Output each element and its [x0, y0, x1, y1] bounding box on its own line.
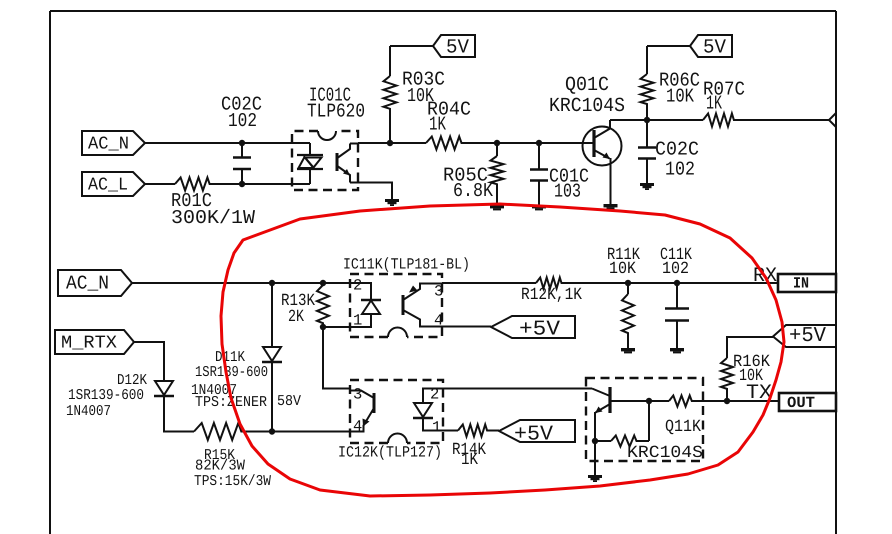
svg-text:1K: 1K [429, 114, 446, 136]
wire R13K to IC11K pin1 [323, 326, 350, 328]
svg-text:1: 1 [432, 419, 441, 437]
diode LED inside IC11K [350, 283, 381, 327]
svg-text:OUT: OUT [787, 394, 815, 412]
transistor phototransistor inside IC12K [350, 391, 374, 432]
resistor R15K 82K/3W TPS:15K/3W [194, 423, 271, 490]
svg-text:1N4007: 1N4007 [66, 403, 111, 420]
svg-text:AC_N: AC_N [88, 135, 129, 155]
svg-text:Q11K: Q11K [665, 418, 702, 437]
svg-text:TPS:15K/3W: TPS:15K/3W [194, 473, 271, 490]
wire R13K junction down to IC12K pin3 [323, 327, 350, 389]
op-amp U IC12K TLP127 optocoupler dashed box [338, 380, 443, 462]
svg-text:1K: 1K [706, 93, 722, 115]
svg-text:2K: 2K [288, 308, 305, 327]
capacitor C11K 102 [660, 246, 693, 348]
op-amp U IC01C TLP620 optocoupler dashed box [292, 85, 365, 191]
resistor R03C 10K [384, 46, 446, 143]
wire red freehand annotation loop [221, 204, 784, 496]
transistor inside Q11K [592, 387, 610, 441]
wire AC_N to IC11K pin2 [132, 282, 350, 284]
wire R06C junction to R07C [647, 119, 703, 121]
wire R15K to IC12K pin4 [246, 431, 350, 433]
wire AC_N to optocoupler [145, 142, 292, 144]
wire base resistor to TX node [694, 400, 779, 402]
svg-text:5V: 5V [446, 37, 469, 60]
op-amp U IC11K TLP181-BL optocoupler dashed box [343, 256, 470, 338]
node 5V power tag (right) [690, 35, 732, 60]
node off-page connector chevron [829, 113, 836, 127]
svg-text:KRC104S: KRC104S [549, 95, 625, 118]
svg-text:2: 2 [353, 277, 362, 295]
junction Q11K emitter/R2 [592, 438, 598, 444]
node M_RTX input tag [55, 330, 134, 354]
wire AC_L to R01C [145, 183, 175, 185]
wire IC12K pin1 to R14K [443, 430, 458, 432]
svg-text:3: 3 [434, 283, 443, 301]
svg-text:5V: 5V [703, 37, 726, 60]
svg-text:300K/1W: 300K/1W [171, 207, 255, 229]
ground (IC01C emitter) [385, 199, 399, 202]
svg-text:3: 3 [353, 386, 362, 404]
transistor phototransistor inside IC01C [337, 144, 358, 183]
wire IC01C emitter to ground [358, 183, 392, 200]
node AC_L (input tag) [82, 172, 145, 196]
svg-text:+5V: +5V [789, 325, 826, 348]
wire Q11K base lead [610, 400, 669, 402]
svg-text:103: 103 [554, 181, 581, 203]
junction C01C [536, 140, 542, 146]
wire Q01C collector to junction [610, 119, 647, 121]
svg-text:C02C: C02C [655, 139, 699, 161]
border frame top [50, 10, 836, 12]
wire IC11K pin3 to R12K [442, 282, 536, 284]
junction C11K [674, 280, 680, 286]
diode LED pair inside IC01C [292, 143, 323, 184]
junction R11K [625, 280, 631, 286]
wire M_RTX to D12K [134, 342, 164, 381]
node IN port box [778, 274, 836, 293]
wire R14K to +5V [490, 430, 499, 432]
resistor R06C 10K [641, 46, 701, 120]
resistor base R1 inside Q11K [669, 396, 694, 407]
diode D11K zener 1SR139-600 1N4007 TPS:ZENER 58V [191, 283, 301, 432]
svg-text:IC12K(TLP127): IC12K(TLP127) [338, 444, 442, 462]
wire R03C to 5V [390, 45, 433, 47]
junction base/R2 [646, 398, 652, 404]
junction AC_N/D11K [269, 280, 275, 286]
resistor R12K,1K [521, 278, 583, 306]
wire R06C to 5V [647, 45, 690, 47]
resistor base-emitter R2 inside Q11K [611, 436, 639, 447]
ground tick (Q01C emitter) [604, 204, 618, 207]
ground (C02C) [640, 183, 654, 186]
svg-text:1K: 1K [461, 451, 479, 470]
svg-text:Q01C: Q01C [565, 74, 609, 97]
ground (Q11K emitter) [588, 475, 602, 478]
svg-text:+5V: +5V [519, 319, 560, 342]
resistor R01C 300K/1W [171, 178, 255, 230]
wire IC11K pin4 to +5V [442, 326, 491, 328]
ground tick (C11K) [670, 348, 684, 351]
border frame left [49, 11, 51, 534]
svg-text:IC11K(TLP181-BL): IC11K(TLP181-BL) [343, 256, 470, 274]
svg-text:R12K,1K: R12K,1K [521, 286, 583, 305]
resistor R16K 10K [721, 337, 773, 401]
node AC_N (input tag) [82, 131, 145, 155]
node +5V power tag (IC11K) [491, 316, 575, 342]
node 5V power tag (left) [433, 35, 475, 60]
capacitor C02C 102 (input) [221, 94, 262, 185]
node AC_N (lower input tag) [58, 270, 132, 296]
resistor R07C 1K [703, 79, 745, 127]
junction AC_N/R13K [320, 280, 326, 286]
junction R05C [494, 140, 500, 146]
junction R03C/collector [387, 140, 393, 146]
transistor Q01C KRC104S [549, 74, 625, 204]
ground tick (C01C) [532, 205, 546, 208]
svg-text:AC_N: AC_N [66, 273, 109, 295]
wire R12K to IN [564, 282, 778, 284]
svg-text:58V: 58V [277, 393, 301, 410]
resistor R04C 1K [426, 99, 471, 150]
svg-text:102: 102 [662, 260, 689, 279]
node OUT port box [779, 393, 836, 412]
ground tick (R05C) [490, 205, 504, 208]
svg-text:KRC104S: KRC104S [627, 444, 703, 463]
transistor Q11K KRC104S dashed box [586, 378, 703, 463]
wire IC01C collector to R04C [358, 142, 426, 144]
svg-text:10K: 10K [666, 86, 694, 108]
svg-text:102: 102 [665, 159, 695, 181]
capacitor C01C 103 [530, 143, 589, 205]
junction TX/R16K [724, 398, 730, 404]
svg-text:+5V: +5V [514, 424, 553, 447]
transistor phototransistor inside IC11K [403, 284, 442, 327]
resistor R14K 1K [452, 425, 490, 471]
capacitor C02C 102 (at Q01C collector) [638, 120, 699, 183]
junction D11K/bottom wire [269, 428, 275, 434]
svg-text:TLP620: TLP620 [307, 101, 365, 123]
junction AC_L/C02C [239, 181, 245, 187]
resistor R05C 6.8K [443, 143, 504, 205]
wire IC12K pin2 to Q11K collector [443, 388, 592, 390]
diode D12K 1SR139-600 1N4007 [66, 372, 174, 420]
svg-text:1SR139-600: 1SR139-600 [195, 364, 268, 381]
svg-text:6.8K: 6.8K [453, 180, 493, 202]
junction AC_N/C02C [239, 140, 245, 146]
wire base node down to R2 [648, 401, 650, 441]
svg-text:10K: 10K [609, 260, 637, 279]
resistor R13K 2K [281, 285, 329, 327]
wire R07C to off-page chevron [737, 119, 829, 121]
svg-text:M_RTX: M_RTX [61, 334, 117, 354]
junction R13K/IC11K pin1 [320, 324, 326, 330]
diode LED inside IC12K [413, 389, 443, 431]
svg-text:AC_L: AC_L [88, 176, 128, 196]
svg-text:IN: IN [793, 275, 809, 293]
node +5V power tag (right margin) [773, 325, 836, 348]
node +5V power tag (IC12K) [499, 420, 575, 447]
svg-text:102: 102 [228, 110, 257, 132]
ground tick (R11K) [621, 348, 635, 351]
svg-text:82K/3W: 82K/3W [195, 458, 245, 475]
wire R04C to Q01C base [465, 142, 593, 144]
wire D12K to R15K [164, 396, 194, 432]
svg-text:1SR139-600: 1SR139-600 [68, 387, 144, 404]
svg-text:4: 4 [353, 418, 362, 436]
wire Q11K emitter to ground [594, 441, 596, 475]
resistor R11K 10K [607, 246, 641, 348]
junction R06C/C02C/R07C [644, 117, 650, 123]
border frame right [835, 11, 837, 534]
wire R01C to optocoupler [213, 183, 292, 185]
